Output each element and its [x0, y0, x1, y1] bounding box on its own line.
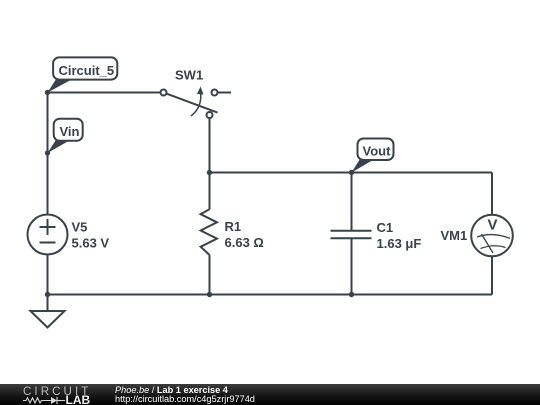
svg-text:5.63 V: 5.63 V: [72, 236, 110, 251]
footer bar: [0, 384, 540, 405]
switch SW1: [161, 90, 167, 96]
svg-text:SW1: SW1: [175, 68, 203, 83]
CircuitLab logo: [0, 384, 100, 405]
wire R1 top lead: [209, 173, 211, 210]
node label Vout: [352, 158, 377, 172]
svg-text:V: V: [488, 217, 498, 234]
svg-text:6.63 Ω: 6.63 Ω: [225, 235, 264, 250]
wire switch bottom terminal down to mid rail: [209, 118, 211, 173]
svg-text:LAB: LAB: [66, 393, 91, 405]
capacitor C1: [331, 230, 372, 232]
wire R1 bottom lead: [209, 255, 211, 295]
resistor R1: [201, 209, 217, 255]
node label Vin: [48, 139, 73, 153]
wire bottom horizontal rail: [48, 294, 493, 296]
wire C1 bottom lead: [351, 238, 353, 294]
junction dots: [45, 90, 50, 95]
svg-text:V5: V5: [72, 220, 88, 235]
svg-text:1.63 μF: 1.63 μF: [377, 236, 422, 251]
svg-text:C1: C1: [377, 220, 394, 235]
svg-text:R1: R1: [225, 219, 242, 234]
voltage source V5: [28, 215, 68, 255]
ground: [47, 295, 49, 312]
svg-text:Circuit_5: Circuit_5: [59, 63, 115, 78]
wire VM1 top lead: [491, 173, 493, 215]
voltmeter VM1: [471, 215, 513, 257]
wire mid horizontal rail: [210, 172, 493, 174]
wire left rail from top node down to V5 top: [47, 93, 49, 215]
node label Circuit_5: [48, 78, 76, 93]
wire C1 top lead: [351, 173, 353, 231]
wire VM1 bottom lead: [491, 256, 493, 294]
svg-text:VM1: VM1: [441, 228, 468, 243]
wire top horizontal from node to switch: [48, 92, 161, 94]
svg-text:Vout: Vout: [363, 144, 392, 159]
wire V5 bottom to ground junction: [47, 255, 49, 295]
svg-text:Vin: Vin: [60, 124, 80, 139]
